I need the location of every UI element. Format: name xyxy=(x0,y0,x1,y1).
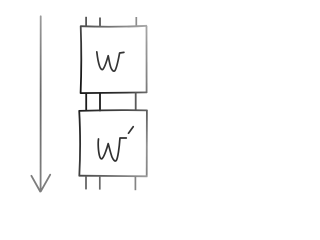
wire C mid segment xyxy=(135,92,137,110)
wire B mid segment xyxy=(99,93,101,111)
wire B bottom stub xyxy=(99,176,101,190)
wire C top stub xyxy=(135,17,137,27)
box U2 bottom edge xyxy=(79,175,148,178)
box U1 left edge xyxy=(80,26,83,94)
box U2 left edge xyxy=(78,110,81,176)
box U1 bottom edge xyxy=(80,91,147,94)
box U1 right edge xyxy=(146,26,148,93)
box U2 right edge xyxy=(146,110,148,177)
wire C bottom stub xyxy=(134,176,136,190)
arrowhead left wing xyxy=(31,176,40,192)
wire A bottom stub xyxy=(85,176,87,190)
wire : arrow shaft xyxy=(40,16,42,190)
arrow (downward, left side) xyxy=(31,16,50,191)
box U1 : W (top box) top edge xyxy=(80,25,147,28)
wire A mid segment xyxy=(85,93,87,111)
wire B top stub xyxy=(99,18,101,27)
wire A top stub xyxy=(85,17,87,27)
box U2 : W' (bottom box) top edge xyxy=(79,109,148,112)
label W (inside top box) xyxy=(97,52,124,71)
prime mark of W' xyxy=(129,127,134,134)
arrowhead right wing xyxy=(41,175,50,192)
label W' (inside bottom box) xyxy=(98,138,126,161)
